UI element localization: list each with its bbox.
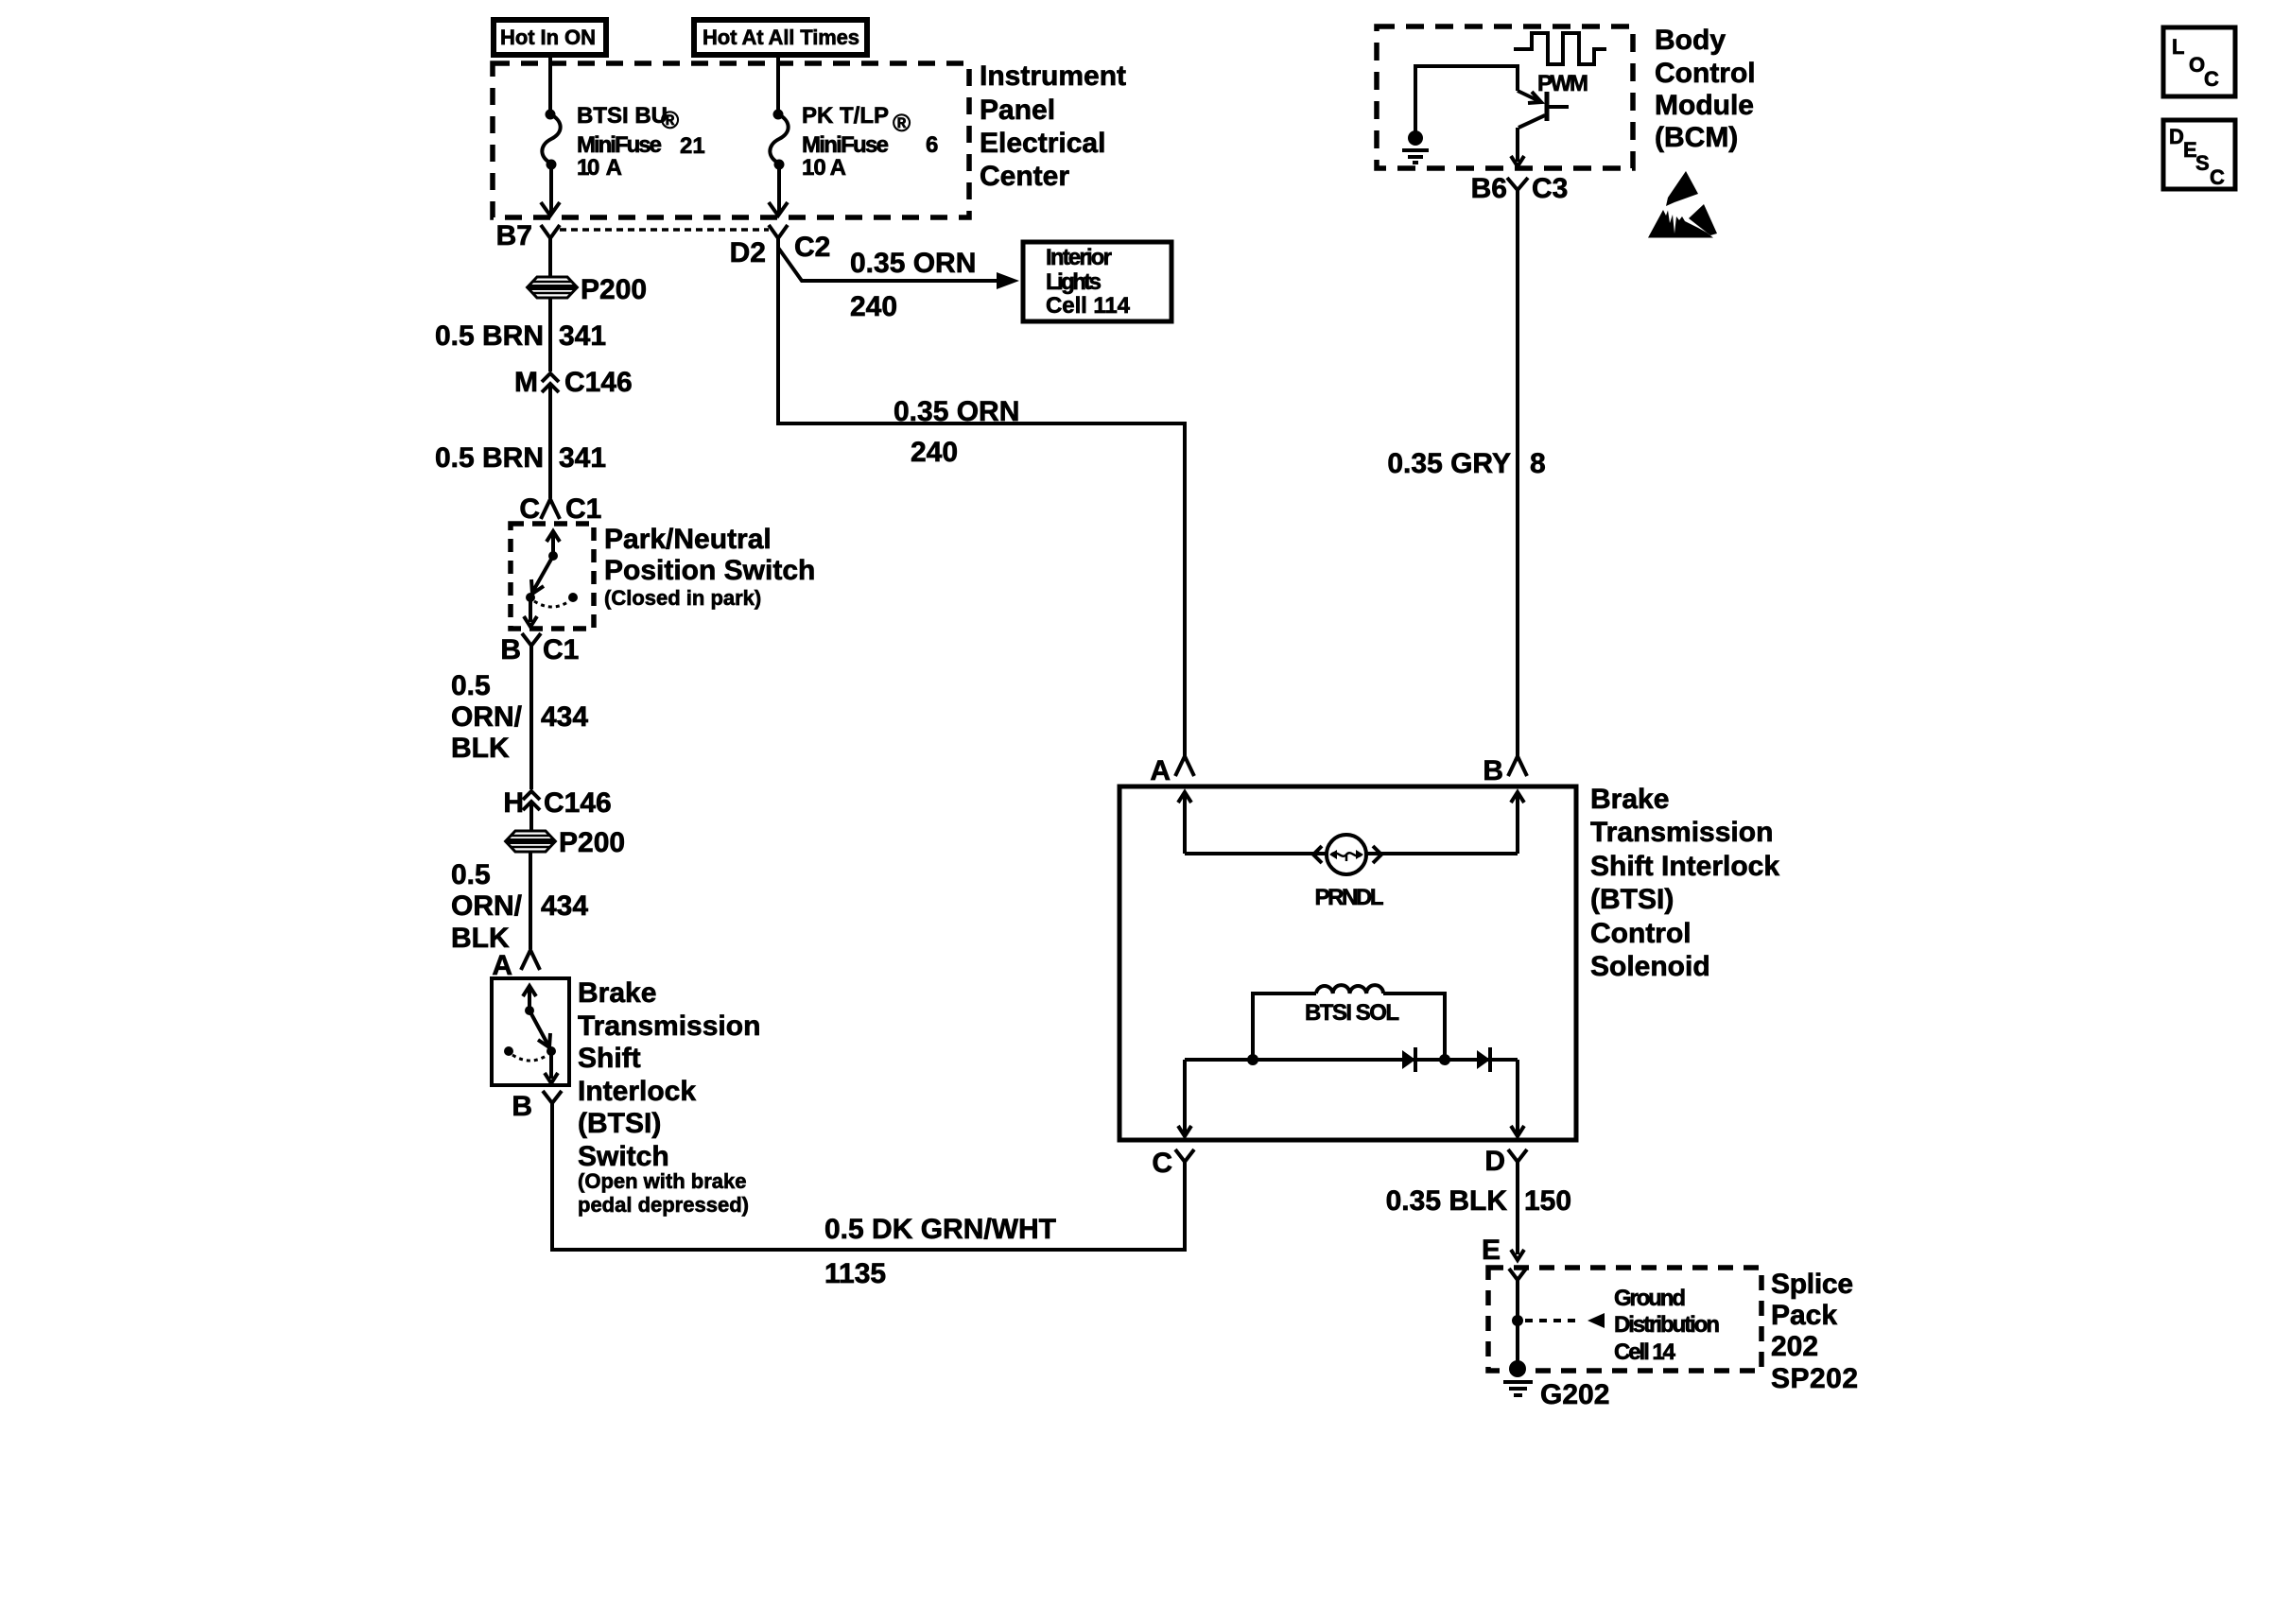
svg-text:Switch: Switch <box>578 1141 669 1172</box>
svg-text:pedal depressed): pedal depressed) <box>578 1193 749 1217</box>
svg-text:434: 434 <box>541 701 588 733</box>
svg-text:H: H <box>503 787 524 819</box>
svg-text:C146: C146 <box>564 367 633 398</box>
svg-text:Control: Control <box>1655 58 1756 89</box>
svg-text:21: 21 <box>680 133 705 159</box>
svg-text:8: 8 <box>1530 448 1546 479</box>
svg-text:Hot In ON: Hot In ON <box>500 26 596 49</box>
svg-text:341: 341 <box>559 442 606 474</box>
svg-text:MiniFuse: MiniFuse <box>802 132 889 158</box>
svg-text:Center: Center <box>980 161 1069 192</box>
svg-text:Pack: Pack <box>1771 1300 1837 1331</box>
svg-text:(Closed in park): (Closed in park) <box>604 586 761 610</box>
svg-text:0.5 BRN: 0.5 BRN <box>435 442 544 474</box>
svg-text:C1: C1 <box>565 493 601 525</box>
svg-text:0.35 GRY: 0.35 GRY <box>1387 448 1511 479</box>
svg-text:Transmission: Transmission <box>1590 817 1773 848</box>
svg-text:B: B <box>500 634 521 665</box>
svg-text:B: B <box>1483 755 1503 786</box>
svg-text:MiniFuse: MiniFuse <box>577 132 662 158</box>
svg-text:BTSI BU: BTSI BU <box>577 103 668 129</box>
svg-text:Electrical: Electrical <box>980 128 1105 159</box>
svg-text:D2: D2 <box>730 237 766 268</box>
svg-text:Shift Interlock: Shift Interlock <box>1590 851 1779 882</box>
svg-text:E: E <box>1482 1235 1501 1266</box>
svg-text:0.5: 0.5 <box>451 859 491 890</box>
svg-text:6: 6 <box>926 132 938 158</box>
svg-text:S: S <box>2195 151 2210 175</box>
svg-text:Hot At All Times: Hot At All Times <box>703 26 859 49</box>
svg-text:0.5 BRN: 0.5 BRN <box>435 320 544 352</box>
svg-text:P200: P200 <box>559 827 625 858</box>
svg-text:Lights: Lights <box>1046 269 1102 295</box>
svg-text:0.35 ORN: 0.35 ORN <box>850 248 976 279</box>
svg-text:Panel: Panel <box>980 95 1055 126</box>
svg-text:Body: Body <box>1655 25 1726 56</box>
svg-text:B6: B6 <box>1471 173 1507 204</box>
svg-text:Brake: Brake <box>578 977 656 1009</box>
svg-text:10 A: 10 A <box>802 155 846 181</box>
svg-text:Solenoid: Solenoid <box>1590 951 1710 982</box>
svg-text:(BTSI): (BTSI) <box>1590 884 1674 915</box>
svg-text:Distribution: Distribution <box>1614 1312 1720 1338</box>
svg-text:P200: P200 <box>581 274 647 305</box>
svg-text:434: 434 <box>541 890 588 922</box>
svg-text:150: 150 <box>1524 1185 1571 1217</box>
svg-text:®: ® <box>893 109 911 137</box>
svg-text:(BCM): (BCM) <box>1655 122 1738 153</box>
svg-text:Splice: Splice <box>1771 1269 1853 1300</box>
svg-text:Brake: Brake <box>1590 784 1669 815</box>
svg-text:(Open with brake: (Open with brake <box>578 1169 746 1193</box>
svg-text:Interlock: Interlock <box>578 1076 696 1107</box>
svg-text:Cell 114: Cell 114 <box>1046 293 1131 319</box>
svg-text:0.5 DK GRN/WHT: 0.5 DK GRN/WHT <box>824 1214 1056 1245</box>
svg-text:202: 202 <box>1771 1331 1818 1362</box>
svg-text:C: C <box>2204 67 2219 91</box>
svg-text:C2: C2 <box>794 232 830 263</box>
svg-text:M: M <box>514 367 538 398</box>
svg-text:Control: Control <box>1590 918 1692 949</box>
svg-text:PK T/LP: PK T/LP <box>802 103 889 129</box>
svg-text:A: A <box>1150 755 1171 786</box>
svg-text:240: 240 <box>911 437 958 468</box>
svg-text:B7: B7 <box>496 220 532 251</box>
svg-text:C: C <box>2210 165 2225 189</box>
svg-text:C1: C1 <box>543 634 579 665</box>
svg-text:D: D <box>1484 1146 1505 1177</box>
svg-text:(BTSI): (BTSI) <box>578 1108 661 1139</box>
svg-text:240: 240 <box>850 291 897 322</box>
svg-text:C: C <box>519 493 540 525</box>
svg-text:0.5: 0.5 <box>451 670 491 701</box>
svg-text:PRNDL: PRNDL <box>1315 885 1384 910</box>
svg-text:C3: C3 <box>1532 173 1568 204</box>
svg-text:Cell 14: Cell 14 <box>1614 1339 1676 1365</box>
svg-text:SP202: SP202 <box>1771 1363 1858 1394</box>
svg-text:®: ® <box>661 106 679 134</box>
svg-text:10 A: 10 A <box>577 155 622 181</box>
svg-text:Module: Module <box>1655 90 1754 121</box>
svg-text:0.35 ORN: 0.35 ORN <box>894 396 1019 427</box>
svg-text:C: C <box>1152 1148 1172 1179</box>
svg-text:Instrument: Instrument <box>980 60 1126 92</box>
svg-text:1135: 1135 <box>824 1258 886 1289</box>
svg-text:ORN/: ORN/ <box>451 890 523 922</box>
svg-text:O: O <box>2189 53 2205 77</box>
svg-text:D: D <box>2169 125 2184 148</box>
svg-text:Ground: Ground <box>1614 1286 1686 1311</box>
svg-text:0.35 BLK: 0.35 BLK <box>1386 1185 1508 1217</box>
svg-text:G202: G202 <box>1540 1379 1609 1410</box>
svg-text:Park/Neutral: Park/Neutral <box>604 524 772 555</box>
svg-text:Shift: Shift <box>578 1043 641 1074</box>
svg-text:Position Switch: Position Switch <box>604 555 815 586</box>
svg-text:341: 341 <box>559 320 606 352</box>
svg-text:Transmission: Transmission <box>578 1011 760 1042</box>
svg-text:L: L <box>2172 35 2184 59</box>
svg-text:BLK: BLK <box>451 733 510 764</box>
svg-text:ORN/: ORN/ <box>451 701 523 733</box>
svg-text:BTSI SOL: BTSI SOL <box>1305 1000 1399 1026</box>
svg-text:C146: C146 <box>544 787 612 819</box>
svg-text:B: B <box>512 1091 532 1122</box>
svg-text:Interior: Interior <box>1046 245 1112 270</box>
